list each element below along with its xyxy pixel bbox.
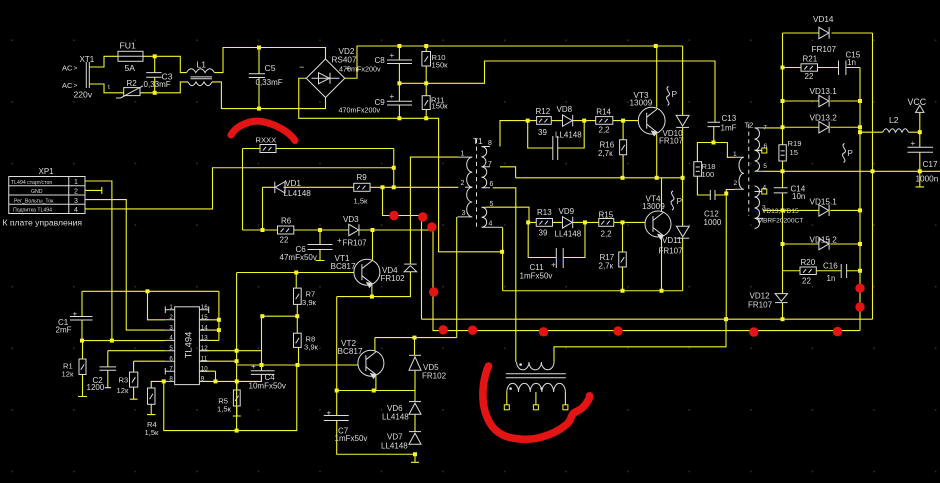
svg-text:R12: R12 [536, 107, 551, 116]
diode VD15.2 [819, 238, 829, 249]
diode VD13.1 [819, 95, 829, 106]
wire C11 left leg [528, 222, 556, 257]
svg-text:10: 10 [201, 365, 208, 372]
wire output row from T2 pin5 [763, 170, 940, 172]
transformer T1 secondary winding upper [482, 147, 491, 188]
wire VD8 to R14 [573, 120, 596, 122]
wire VD1 left lead down [262, 187, 264, 230]
wire XP1 pin1 run [85, 181, 112, 341]
wire VD15.2 row [783, 243, 861, 245]
wire C13 bottom to node [713, 127, 715, 143]
capacitor C9 [387, 101, 412, 105]
wire C6 stub [316, 250, 325, 261]
svg-text:12к: 12к [117, 386, 129, 395]
svg-text:470mFx200v: 470mFx200v [339, 64, 381, 73]
svg-text:R14: R14 [596, 107, 611, 116]
resistor R14 [596, 117, 613, 125]
wire R7 bottom lead [296, 304, 298, 333]
svg-text:6: 6 [764, 143, 768, 150]
wire CT secondary lead 1 [506, 392, 508, 405]
svg-text:FU1: FU1 [120, 41, 136, 51]
svg-text:2: 2 [461, 180, 465, 187]
wire VT2 emitter row [337, 390, 415, 392]
svg-text:Т2: Т2 [745, 121, 754, 130]
svg-text:BC817: BC817 [338, 347, 363, 356]
svg-text:VD1: VD1 [285, 179, 301, 188]
svg-text:−: − [299, 62, 304, 72]
svg-text:5: 5 [169, 345, 173, 352]
resistor R7 [294, 288, 302, 304]
wire VT1 emitter lead [371, 285, 373, 297]
wire VD5 top lead [414, 338, 416, 356]
wire VD7 stub [411, 454, 419, 462]
wire T2 pin7 to VD13.2 node [763, 127, 783, 129]
wire R1 top lead [82, 341, 84, 359]
resistor R5 [233, 390, 240, 406]
wire VT3 collector lead [656, 46, 658, 108]
wire snubber column VD10 VD11 [682, 46, 684, 291]
wire L2 right lead [908, 131, 919, 133]
capacitor C7 [324, 416, 349, 421]
svg-text:VD13.1: VD13.1 [810, 87, 838, 96]
current transformer terminals [504, 405, 568, 410]
svg-text:9: 9 [201, 376, 205, 383]
fuse FU1 [118, 51, 143, 61]
resistor R9 [354, 183, 370, 191]
wire VD13.2 row [783, 126, 861, 128]
svg-text:13009: 13009 [642, 202, 665, 211]
svg-text:4: 4 [763, 184, 767, 191]
svg-text:0,33mF: 0,33mF [144, 80, 171, 89]
red annotation arc over RXXX [231, 121, 295, 140]
capacitor C3 [146, 73, 161, 78]
svg-text:FR107: FR107 [659, 136, 684, 145]
svg-text:LL4148: LL4148 [284, 189, 312, 198]
wire R5 stub [233, 406, 241, 416]
svg-text:R3: R3 [119, 375, 129, 384]
svg-text:LL4148: LL4148 [555, 229, 582, 238]
wire VT1 collector lead [372, 230, 374, 260]
wire L2 left lead [860, 131, 883, 133]
inductor L2 [883, 129, 909, 133]
capacitor C10 [553, 136, 558, 160]
resistor R6 [278, 226, 294, 234]
svg-text:XP1: XP1 [39, 167, 55, 176]
wire R10 bottom lead [425, 66, 427, 83]
wire pin9 row to C4 [216, 374, 262, 381]
transformer T2 core [748, 124, 750, 216]
svg-text:1200: 1200 [87, 383, 105, 392]
svg-text:1,5к: 1,5к [217, 404, 232, 413]
current transformer primary winding [517, 362, 554, 370]
svg-text:Подпитка TL494: Подпитка TL494 [13, 208, 52, 214]
wire R4 stub [147, 404, 156, 414]
svg-text:R2: R2 [127, 79, 138, 88]
svg-text:FR102: FR102 [381, 274, 406, 283]
svg-text:1000n: 1000n [916, 174, 939, 183]
svg-text:VD14: VD14 [813, 15, 834, 24]
wire T1 pin7 jog [500, 167, 516, 178]
wire TL494 pin4 row [82, 340, 165, 342]
wire CT right lead [554, 319, 726, 362]
svg-text:6: 6 [169, 355, 173, 362]
wire R11 bottom lead [425, 110, 427, 119]
wire RXXX left lead [243, 149, 261, 231]
wire L1 top out to bridge top [214, 48, 325, 73]
wire R9 jog down to rail [383, 187, 422, 319]
wire XP1 pin3 run [85, 200, 165, 331]
wire T2 pin4 stub [755, 191, 762, 193]
resistor R19 [779, 145, 786, 161]
svg-text:AC: AC [62, 81, 73, 90]
wire C8 top lead [398, 46, 400, 60]
diode VD5 [409, 355, 421, 370]
svg-text:6: 6 [490, 181, 494, 188]
capacitor C8 [387, 60, 412, 64]
wire T1 pin8 jog [500, 121, 537, 147]
wire bridge plus to positive rail [345, 46, 683, 78]
svg-text:P: P [672, 89, 678, 99]
svg-text:+: + [911, 139, 916, 148]
svg-text:C4: C4 [265, 373, 276, 382]
svg-text:R15: R15 [599, 210, 614, 219]
capacitor C11 [556, 248, 563, 268]
svg-text:150к: 150к [432, 102, 449, 111]
wire TL494 pin6 to R3 [134, 361, 166, 372]
wire mid rail to C13 [399, 61, 715, 122]
svg-text:L1: L1 [197, 60, 207, 70]
wire VT2 emitter lead [375, 376, 377, 390]
wire T2 pin3 to VD15.1 node [763, 209, 783, 211]
wire R4 top jog to pin8 [151, 381, 165, 388]
svg-text:MBRF20200CT: MBRF20200CT [758, 217, 804, 224]
wire R17 bottom lead [622, 267, 624, 291]
wire TL494 pins 9 10 tie [199, 371, 215, 381]
svg-text:5: 5 [763, 163, 767, 170]
wire snubber right rail [859, 68, 861, 331]
svg-text:1mFx50v: 1mFx50v [520, 271, 553, 280]
svg-text:3,9к: 3,9к [304, 342, 319, 351]
svg-text:2: 2 [74, 189, 78, 196]
svg-text:TL494 старт/стоп: TL494 старт/стоп [11, 180, 52, 186]
diode VD15.1 [819, 205, 829, 216]
svg-text:3: 3 [74, 198, 78, 205]
wire VD14 row right [832, 32, 873, 34]
svg-text:4: 4 [489, 221, 493, 228]
wire T2 pin6 stub [755, 150, 762, 152]
wire C8 bottom lead [398, 64, 400, 84]
svg-text:+: + [390, 51, 395, 60]
wire T2 pin2 lead [726, 190, 735, 320]
diode VD10 [676, 115, 689, 127]
wire C7 bottom lead [337, 421, 415, 455]
resistor R18 [694, 162, 702, 177]
diode VD7 [409, 432, 421, 445]
wire VD4 cathode to T1 pin1 [410, 157, 458, 264]
wire VD3 output down to red-dot rail [433, 230, 860, 331]
wire VD15.1 row [783, 209, 861, 211]
wire C9 bottom lead [398, 105, 400, 118]
svg-text:VD15 2: VD15 2 [810, 235, 838, 244]
red annotation curve around current transformer [483, 366, 590, 439]
svg-text:2: 2 [169, 314, 173, 321]
power symbol VCC arrow [916, 105, 924, 112]
svg-text:2,2: 2,2 [601, 229, 613, 238]
svg-text:22: 22 [802, 276, 811, 285]
connector XP1 [9, 177, 85, 214]
wire C17 bottom lead [919, 152, 921, 171]
svg-text:39: 39 [538, 128, 547, 137]
svg-text:TL494: TL494 [182, 332, 193, 359]
svg-text:5: 5 [490, 201, 494, 208]
wire feedback rail y319 [422, 318, 873, 320]
wire R17 top lead [622, 222, 624, 252]
wire C5 bottom lead [258, 78, 260, 109]
svg-text:15: 15 [201, 314, 208, 321]
wire C1 top lead [81, 291, 83, 316]
resistor R16 [620, 140, 627, 155]
wire C10 right leg [558, 121, 585, 148]
winding polarity dots [509, 363, 543, 390]
svg-text:T1: T1 [473, 137, 483, 146]
svg-text:VD9: VD9 [559, 207, 575, 216]
red annotation dots [389, 211, 864, 337]
TL494 right pin stubs [199, 310, 208, 382]
transistor VT3 [638, 107, 665, 135]
svg-text:FR107: FR107 [812, 45, 837, 54]
capacitor C2 [100, 367, 117, 370]
wire emitter rail [516, 177, 683, 179]
transistor VT2 [358, 350, 384, 378]
svg-text:2,7к: 2,7к [598, 149, 613, 158]
svg-text:VD13.2: VD13.2 [810, 114, 838, 123]
capacitor C5 [249, 74, 265, 78]
svg-text:VD7: VD7 [387, 433, 403, 442]
resistor R21 [801, 64, 818, 71]
svg-text:7: 7 [169, 365, 173, 372]
wire VD13.1 row [783, 100, 861, 102]
svg-text:+: + [337, 236, 342, 245]
diode VD8 [563, 115, 573, 126]
svg-text:+: + [327, 408, 332, 417]
wire bridge minus to negative bus [299, 78, 502, 252]
diode VD14 [819, 27, 829, 38]
wire TL494 pins 15 14 13 tie [199, 291, 219, 340]
svg-text:10n: 10n [792, 192, 805, 201]
wire VT4 emitter lead [661, 237, 663, 291]
svg-text:1,5к: 1,5к [354, 196, 369, 205]
svg-text:39: 39 [539, 228, 548, 237]
svg-text:BC817: BC817 [331, 262, 356, 271]
svg-text:t: t [108, 84, 110, 91]
svg-text:1: 1 [169, 304, 173, 311]
svg-text:>: > [74, 65, 78, 72]
svg-text:LL4148: LL4148 [381, 441, 408, 450]
wire TL494 pin5 to C2 [108, 351, 166, 367]
diode VD4 [404, 264, 416, 272]
svg-text:R21: R21 [803, 54, 818, 63]
svg-text:1: 1 [74, 179, 78, 186]
wire R2 to node B [140, 82, 188, 93]
wire VD12 bottom lead [782, 303, 784, 320]
svg-text:0,33mF: 0,33mF [256, 78, 283, 87]
wire T1 pin4 column [502, 227, 504, 290]
transistor VT1 [354, 259, 380, 287]
wire R5 top lead [236, 381, 238, 390]
transformer T1 secondary winding lower [482, 207, 503, 227]
wire VCC lead to C17 node [919, 112, 921, 147]
wire C9 top lead [398, 83, 400, 101]
svg-text:150к: 150к [432, 60, 449, 69]
thermistor R2 [116, 86, 143, 98]
wire R18 bottom to C12 [697, 176, 710, 195]
svg-text:+: + [73, 309, 78, 318]
wire C1 bottom lead [81, 320, 83, 341]
wire VD14 row left [783, 32, 819, 34]
svg-text:1: 1 [461, 151, 465, 158]
svg-text:2,7к: 2,7к [599, 261, 614, 270]
resistor R20 [800, 267, 816, 275]
wire diode ladder left rail upper [782, 33, 784, 145]
svg-text:100: 100 [702, 170, 715, 179]
wire CT secondary lead 2 [535, 392, 537, 405]
svg-text:22: 22 [280, 235, 289, 244]
current transformer core [506, 374, 566, 378]
TL494 left pin stubs [165, 310, 174, 382]
wire VT3 emitter lead [656, 134, 658, 178]
svg-text:3: 3 [169, 324, 173, 331]
wire C2 stub [105, 370, 111, 387]
diode VD13.2 [819, 122, 829, 133]
wire junction dots [80, 44, 922, 456]
T2 unconnected pin squares [762, 148, 767, 194]
capacitor C15 [839, 61, 846, 76]
svg-text:XT1: XT1 [80, 55, 95, 64]
resistor R11 [422, 96, 430, 110]
svg-text:220v: 220v [74, 90, 93, 100]
svg-text:R16: R16 [600, 140, 615, 149]
wire R1 stub [78, 375, 87, 397]
wire VD6 VD7 link [414, 414, 416, 431]
wire TL494 pin12 run [199, 350, 261, 352]
wire T1 pin5 jog [486, 207, 529, 222]
svg-text:1mFx50v: 1mFx50v [335, 434, 368, 443]
svg-text:1,5к: 1,5к [145, 428, 160, 437]
wire VD3 R6 row [243, 229, 434, 231]
wire C10 left leg [528, 121, 553, 148]
wire XP1 pin2 stub [85, 187, 102, 194]
svg-text:1n: 1n [827, 274, 836, 283]
svg-text:13009: 13009 [630, 98, 653, 107]
wire R12 to VD8 [551, 120, 562, 122]
jumper P near T2 [842, 144, 845, 163]
transformer T2 secondary winding upper [755, 128, 764, 171]
capacitor C4 [251, 371, 275, 375]
wire C17 ground stub [916, 171, 925, 187]
svg-text:3,9к: 3,9к [302, 298, 317, 307]
svg-text:FR107: FR107 [748, 300, 773, 309]
wire C6 top lead [319, 230, 321, 245]
resistor R1 [79, 359, 86, 375]
resistor R17 [619, 252, 627, 267]
svg-text:2mF: 2mF [56, 326, 72, 335]
wire bottom rail from pin8 [164, 365, 297, 431]
wire VT2 collector row [375, 337, 457, 339]
wire R16 top lead [622, 121, 624, 140]
wire VD6 top lead [414, 391, 416, 402]
svg-text:LL4148: LL4148 [555, 130, 582, 139]
transformer T1 core [476, 139, 478, 229]
wire node to R18 top and T2 pin1 [697, 143, 735, 162]
transformer T2 secondary winding lower [755, 186, 764, 228]
wire node C4 column [261, 316, 263, 371]
wire R7 top lead [295, 273, 297, 289]
svg-text:22: 22 [805, 72, 814, 81]
wire L1 bottom out to bridge bottom [212, 82, 326, 109]
svg-text:AC: AC [62, 64, 73, 73]
svg-text:P: P [847, 148, 853, 158]
capacitor C12 [710, 190, 715, 200]
svg-text:C17: C17 [923, 160, 938, 169]
jumper P near VT4 [671, 191, 674, 210]
svg-text:RXXX: RXXX [256, 135, 277, 144]
svg-text:16: 16 [201, 304, 208, 311]
diode VD9 [563, 217, 573, 228]
svg-text:1: 1 [733, 151, 737, 158]
transformer T1 primary winding [457, 157, 472, 217]
inductor L1 [187, 69, 215, 86]
svg-text:3: 3 [462, 210, 466, 217]
svg-text:R6: R6 [281, 216, 292, 225]
svg-text:RS407: RS407 [332, 55, 357, 64]
wire XT1 top to FU1 [89, 56, 118, 67]
wire RXXX right lead [276, 149, 394, 188]
svg-text:C5: C5 [265, 63, 276, 73]
svg-text:P: P [677, 196, 683, 206]
svg-text:1000: 1000 [704, 218, 722, 227]
wire TL494 pin11 column [199, 273, 236, 431]
svg-text:VD13, VD15: VD13, VD15 [762, 208, 799, 215]
resistor R4 [148, 388, 156, 404]
svg-text:R13: R13 [537, 208, 552, 217]
svg-text:8: 8 [488, 140, 492, 147]
svg-text:R20: R20 [801, 258, 816, 267]
wire R7 divider row [262, 315, 297, 317]
wire R3 stub [130, 387, 138, 399]
svg-text:10mFx50v: 10mFx50v [249, 382, 286, 391]
wire C11 right leg [563, 222, 585, 257]
wire R21 row [783, 67, 861, 69]
wire diode ladder left rail lower [782, 193, 784, 294]
svg-text:12к: 12к [62, 369, 74, 378]
svg-text:14: 14 [201, 324, 208, 331]
svg-text:5A: 5A [125, 63, 136, 73]
svg-text:4: 4 [74, 207, 78, 214]
wire VD5 bottom lead [414, 371, 416, 391]
capacitor C1 [70, 317, 93, 321]
svg-text:R19: R19 [788, 139, 802, 148]
op-amp U1 TL494 body [175, 307, 200, 385]
wire VT2 base row [237, 364, 358, 366]
wire XP1 pin4 run [85, 168, 394, 209]
connector XT1 [86, 62, 89, 88]
svg-text:470mFx200v: 470mFx200v [339, 106, 381, 115]
wire R14 to VT3 base [613, 120, 638, 122]
svg-text:R9: R9 [357, 173, 368, 182]
wire R10 top lead [425, 46, 427, 52]
wire XT1 bottom to R2 [89, 84, 124, 93]
resistor R3 [130, 372, 138, 387]
